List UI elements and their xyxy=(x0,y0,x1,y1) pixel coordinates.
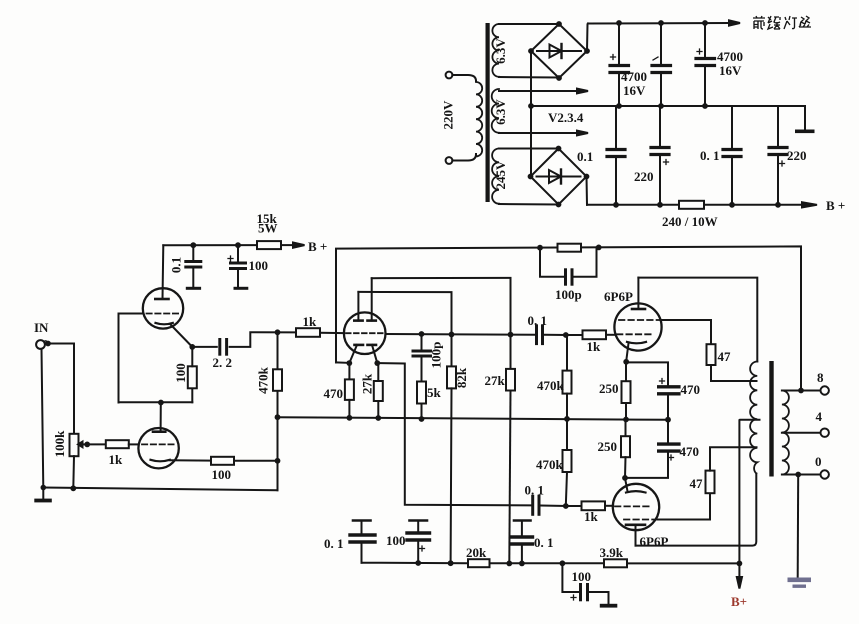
svg-text:0.1: 0.1 xyxy=(577,149,593,164)
capacitor 2.2 coupling xyxy=(218,340,221,355)
wire preamp B+ rail xyxy=(163,244,257,246)
svg-text:220V: 220V xyxy=(441,100,456,130)
node 27k2 at bottom rail xyxy=(506,561,512,567)
pentode V5 cathode xyxy=(626,491,646,492)
wire 0 tap to ground xyxy=(797,475,800,577)
OPT primary winding xyxy=(750,362,757,474)
resistor 20k (in rail) xyxy=(468,559,490,567)
capacitor 0.1 bottom #2 xyxy=(514,519,531,522)
node bridge1 right vertex xyxy=(584,48,590,54)
svg-text:2. 2: 2. 2 xyxy=(213,355,233,370)
node 0.1#2 at bottom rail xyxy=(519,561,525,567)
node bridge1 bottom vertex xyxy=(556,75,562,81)
wire V4 cathode down xyxy=(626,343,628,361)
svg-text:B +: B + xyxy=(826,198,845,213)
node 470 cap at mid rail xyxy=(665,417,671,423)
PSU labels xyxy=(441,38,846,229)
node cathode left xyxy=(346,360,352,366)
node 470k top xyxy=(275,329,281,335)
node fb RC right xyxy=(596,245,602,251)
pentode V4 screen grid (dashed) xyxy=(619,319,660,321)
wire V3 right plate up and over xyxy=(372,278,511,335)
capacitor 0.1 coupling lower xyxy=(531,496,534,514)
resistor 1k grid stopper V1 xyxy=(106,440,129,448)
node 100p xyxy=(419,331,425,337)
ground (speaker, blue-gray) xyxy=(788,578,812,588)
node 0 tap ground xyxy=(795,472,801,478)
resistor 470k lower bias (vertical) xyxy=(566,419,568,450)
capacitor 100p feedback loop xyxy=(540,248,563,277)
wire mid ground rail xyxy=(278,417,669,420)
triode V1 grid (dashed) xyxy=(142,443,175,445)
node filament rail cap3 xyxy=(702,20,708,26)
resistor feedback (in rail) xyxy=(558,244,582,252)
node rail 238 xyxy=(235,242,241,248)
svg-text:0. 1: 0. 1 xyxy=(700,148,720,163)
node input ground xyxy=(41,485,47,491)
triode V3 grid (dashed) xyxy=(346,332,384,334)
node 470k bottom / mid rail start xyxy=(275,414,281,420)
node 100 at bottom rail xyxy=(415,560,421,566)
capacitor 4700/16V #1 electrolytic xyxy=(618,23,620,64)
capacitor 0.1 psu #1 xyxy=(615,106,617,148)
svg-text:470k: 470k xyxy=(256,366,271,394)
bridge rectifier D2 diamond xyxy=(531,149,587,205)
node bridge1 top vertex xyxy=(556,21,562,27)
pentode V5 control grid (dashed) xyxy=(615,505,650,507)
svg-text:100: 100 xyxy=(249,258,269,273)
wire loop up to 100 SRPP resistor xyxy=(191,388,193,402)
node rail cap1 bottom xyxy=(616,103,622,109)
node pot bottom on ground rail xyxy=(70,485,76,491)
node 470 bottom xyxy=(347,415,353,421)
svg-text:470k: 470k xyxy=(536,457,564,472)
transformer T1 secondary 6.3V (top) winding xyxy=(492,24,499,77)
resistor 250 upper (vertical) xyxy=(625,362,627,381)
wire common ground rail xyxy=(531,105,805,107)
triode V1 plate xyxy=(153,430,165,433)
terminal 4 xyxy=(821,429,829,437)
svg-text:240 / 10W: 240 / 10W xyxy=(662,214,718,229)
svg-text:6.3V: 6.3V xyxy=(493,38,508,64)
wire 6.3V top winding to bridge1 top vertex xyxy=(499,23,559,25)
arrow heater feed top xyxy=(577,89,588,94)
node upper grid junction xyxy=(563,332,569,338)
svg-text:220: 220 xyxy=(787,148,807,163)
capacitor 0.1 preamp decoupling xyxy=(192,245,194,260)
wire 1k to V3 grid xyxy=(320,332,344,334)
triode V3 plate left xyxy=(354,319,362,322)
wire IN to pot top xyxy=(48,344,74,434)
svg-text:16V: 16V xyxy=(623,83,646,98)
resistor 250 lower (vertical) xyxy=(625,420,627,437)
pentode V4 control grid (dashed) xyxy=(617,333,651,335)
wire primary bottom lead xyxy=(452,154,476,161)
pentode V5 6P6P lower envelope xyxy=(613,484,659,530)
capacitor 100p (vertical) xyxy=(421,334,423,350)
svg-text:8: 8 xyxy=(817,370,824,385)
transformer T1 primary winding xyxy=(476,81,482,156)
wire V2 cathode diagonal to node xyxy=(171,325,193,347)
triode V2 cathode xyxy=(156,323,173,324)
svg-text:V2.3.4: V2.3.4 xyxy=(548,110,584,125)
node 27k2 top xyxy=(508,332,514,338)
svg-text:0. 1: 0. 1 xyxy=(525,483,545,498)
triode V3 envelope xyxy=(344,312,386,354)
terminal 220V bottom xyxy=(446,157,453,164)
svg-text:470: 470 xyxy=(681,382,701,397)
wire bridge1 DC+ up to filament rail xyxy=(587,24,588,52)
node B+ rail 732 xyxy=(729,202,735,208)
svg-text:245V: 245V xyxy=(493,160,508,190)
node bridge2 top vertex xyxy=(556,146,562,152)
node B+ rail 660 xyxy=(657,202,663,208)
capacitor 100 electrolytic to ground xyxy=(562,563,578,592)
node bridge2 left vertex xyxy=(528,174,534,180)
svg-text:82k: 82k xyxy=(454,367,469,388)
bridge rectifier D2 diode symbol xyxy=(537,176,581,178)
transformer T1 core xyxy=(486,23,490,202)
wire node to 2.2 cap xyxy=(192,346,217,348)
svg-text:100: 100 xyxy=(212,467,232,482)
capacitor 0.1 psu #2 xyxy=(731,106,733,148)
wire 1k to grid V1 xyxy=(129,443,139,445)
terminal 0 xyxy=(821,470,829,478)
svg-text:6.3V: 6.3V xyxy=(493,99,508,125)
capacitor 0.1 coupling upper xyxy=(535,326,538,344)
resistor 27k tail (vertical) xyxy=(377,363,379,381)
pentode V5 plate xyxy=(626,523,645,526)
svg-text:100p: 100p xyxy=(429,342,444,369)
node B+ rail 778 xyxy=(775,202,781,208)
triode V3 plate right xyxy=(368,319,376,322)
arrow filament output xyxy=(729,20,740,25)
pentode V4 plate xyxy=(632,308,645,311)
resistor 240/10W xyxy=(679,201,704,209)
resistor 470 cathode (vertical) xyxy=(348,363,350,379)
capacitor 220 psu electrolytic #2 xyxy=(777,106,779,146)
svg-text:4700: 4700 xyxy=(621,69,647,84)
svg-text:100: 100 xyxy=(572,569,592,584)
triode V2 upper SRPP envelope xyxy=(143,288,183,328)
node wiper xyxy=(84,442,90,448)
amplifier labels xyxy=(34,211,824,609)
node lower grid junction xyxy=(563,503,569,509)
node V1 plate to grid-loop xyxy=(158,400,164,406)
wire SRPP grid loop xyxy=(119,314,193,403)
terminal IN jack xyxy=(36,340,45,349)
triode V1 cathode xyxy=(151,460,170,462)
triode V3 cathode left xyxy=(355,344,364,347)
svg-text:250: 250 xyxy=(599,381,619,396)
wire feedback from 8 ohm tap xyxy=(336,246,801,390)
node IN xyxy=(45,341,51,347)
ground (bottom middle) xyxy=(600,604,618,608)
node filament rail cap2 xyxy=(658,20,664,26)
svg-text:100: 100 xyxy=(386,533,406,548)
resistor 82k (vertical) xyxy=(451,335,453,367)
OPT secondary winding xyxy=(782,391,789,475)
wire ground rail drop xyxy=(804,106,806,129)
resistor 1k coupling to phase splitter xyxy=(296,328,320,337)
wire V1 cathode to 100 xyxy=(170,459,211,461)
triode V3 cathode right xyxy=(368,344,377,347)
svg-text:0. 1: 0. 1 xyxy=(528,313,548,328)
potentiometer 100k xyxy=(70,434,79,456)
arrow B+ down xyxy=(738,563,740,578)
wire feedback into cathode xyxy=(336,361,349,364)
svg-text:100k: 100k xyxy=(52,430,67,458)
capacitor 220 psu electrolytic #1 xyxy=(659,106,661,146)
svg-text:4: 4 xyxy=(816,409,823,424)
node 8 tap feedback xyxy=(798,388,804,394)
resistor 470k upper bias (vertical) xyxy=(566,335,568,371)
resistor 27k #2 (vertical) xyxy=(510,335,512,369)
node SRPP output xyxy=(189,344,195,350)
wire filament rail xyxy=(588,22,729,25)
wire V3 left plate up and over xyxy=(358,292,451,335)
arrow heater feed bottom xyxy=(577,131,588,136)
capacitor 4700/16V #3 electrolytic xyxy=(704,23,706,57)
node rail cap2 bottom xyxy=(658,103,664,109)
wire wiper to 1k xyxy=(87,443,106,445)
svg-text:470: 470 xyxy=(324,386,344,401)
terminal 8 xyxy=(821,386,829,394)
node 5k bottom xyxy=(419,416,425,422)
node 82k top xyxy=(449,332,455,338)
svg-text:16V: 16V xyxy=(719,63,742,78)
wire V5 screen to 47 lower xyxy=(658,493,710,519)
node cathode right xyxy=(374,360,380,366)
wire 245V winding top to bridge2 top vertex xyxy=(499,148,559,150)
resistor 15k 5W xyxy=(257,241,281,249)
svg-text:5W: 5W xyxy=(258,221,278,236)
terminal 220V top xyxy=(446,72,453,79)
node bridge2 right vertex xyxy=(584,174,590,180)
svg-text:0.1: 0.1 xyxy=(169,257,184,273)
node cathode/ground riser xyxy=(275,458,281,464)
wire 6.3V mid winding top heater feed xyxy=(499,90,577,92)
svg-text:5k: 5k xyxy=(427,385,442,400)
node 27k bottom xyxy=(375,415,381,421)
triode V2 grid (dashed) xyxy=(147,313,181,315)
node 250 at mid rail xyxy=(623,417,629,423)
resistor 1k grid upper 6P6P xyxy=(566,334,583,336)
wire secondary 4 tap xyxy=(782,432,820,434)
node bridge1 left vertex xyxy=(528,48,534,54)
svg-text:3.9k: 3.9k xyxy=(600,545,624,560)
svg-text:1k: 1k xyxy=(584,509,599,524)
svg-text:47: 47 xyxy=(718,349,732,364)
resistor 100 SRPP (vertical) xyxy=(188,366,197,388)
svg-text:6P6P: 6P6P xyxy=(640,534,669,549)
resistor 47 screen lower xyxy=(706,471,715,494)
node 470k at mid rail xyxy=(564,416,570,422)
wire 245V winding bottom to bridge2 bottom vertex xyxy=(499,203,559,206)
svg-text:IN: IN xyxy=(34,320,49,335)
pentode V4 6P6P upper envelope xyxy=(614,303,661,350)
capacitor 100 preamp electrolytic xyxy=(237,245,239,261)
svg-text:20k: 20k xyxy=(466,545,487,560)
wire bottom ground rail xyxy=(362,562,740,565)
wire V4 plate to OPT top xyxy=(638,278,757,362)
wire right cathode to lower coupling drop xyxy=(377,363,531,505)
resistor 47 screen upper xyxy=(707,344,716,365)
capacitor 100 bottom electrolytic xyxy=(410,519,428,522)
triode V2 plate xyxy=(155,298,168,301)
resistor 5k (vertical) xyxy=(417,382,426,404)
node bridge2 bottom vertex xyxy=(556,202,562,208)
svg-text:0: 0 xyxy=(815,454,822,469)
transformer T1 secondary 6.3V (middle) winding xyxy=(492,89,499,133)
resistor 1k grid lower 6P6P xyxy=(566,505,582,507)
bridge rectifier D1 diode symbol xyxy=(537,50,581,52)
wire DC- from bridge1 left vertex down to common rail and bridge2 left vertex xyxy=(530,51,532,177)
transformer T1 secondary 245V winding xyxy=(492,149,499,204)
svg-text:47: 47 xyxy=(690,476,704,491)
svg-text:6P6P: 6P6P xyxy=(604,289,633,304)
node fb RC left xyxy=(537,245,543,251)
svg-text:B +: B + xyxy=(308,239,327,254)
wire B+ feed riser to OPT center tap xyxy=(739,420,759,564)
svg-text:1k: 1k xyxy=(109,452,124,467)
wire 2.2 to coupling node xyxy=(230,332,296,347)
node B+ feed junction xyxy=(737,561,743,567)
svg-text:470: 470 xyxy=(680,444,700,459)
wire IN ground drop xyxy=(42,349,44,488)
svg-text:B+: B+ xyxy=(731,594,747,609)
wire V3 output row xyxy=(386,333,535,336)
node rail cap3 bottom xyxy=(702,103,708,109)
wire B+ raw rail xyxy=(587,204,801,206)
potentiometer wiper arrow xyxy=(82,443,87,445)
wire V4 screen to 47 xyxy=(661,320,712,344)
wire ground stub xyxy=(42,488,44,500)
node rail 193 xyxy=(190,242,196,248)
wire 6.3V top winding bottom to bridge1 bottom vertex xyxy=(499,76,559,79)
node B+ rail 616 xyxy=(613,202,619,208)
wire secondary 0 tap xyxy=(782,474,820,476)
OPT core xyxy=(769,361,773,477)
wire primary top lead xyxy=(452,75,476,81)
resistor 100 cathode V1 xyxy=(211,457,234,465)
svg-text:1k: 1k xyxy=(587,339,602,354)
wire bridge2 DC+ down to B+ rail xyxy=(586,177,589,205)
ground (input) xyxy=(34,499,52,503)
arrow to B+ (preamp) xyxy=(293,243,305,248)
svg-text:100: 100 xyxy=(173,363,188,383)
capacitor C filament #2 xyxy=(660,23,662,64)
svg-text:27k: 27k xyxy=(360,373,375,394)
label 前级灯丝 (hand drawn strokes) xyxy=(753,16,811,29)
wire secondary 8 tap xyxy=(782,390,820,392)
svg-text:100p: 100p xyxy=(555,287,582,302)
capacitor 470 bypass lower electrolytic xyxy=(667,420,669,443)
svg-text:4700: 4700 xyxy=(717,49,743,64)
wire riser x=277.5 xyxy=(277,332,279,490)
ground (power supply) xyxy=(795,130,815,134)
node 100 elec branch xyxy=(560,560,566,566)
svg-text:0. 1: 0. 1 xyxy=(534,535,554,550)
arrow B+ output xyxy=(802,202,817,207)
capacitor 0.1 bottom #1 xyxy=(353,519,371,522)
node V4 cathode xyxy=(623,359,629,365)
svg-text:250: 250 xyxy=(598,439,618,454)
svg-text:0. 1: 0. 1 xyxy=(324,536,344,551)
bridge rectifier D1 diamond xyxy=(531,24,587,78)
node filament rail cap1 xyxy=(616,20,622,26)
svg-text:470k: 470k xyxy=(537,378,565,393)
node V5 cathode xyxy=(622,475,628,481)
resistor 470k grid leak (vertical) xyxy=(273,369,282,391)
wire 6.3V mid winding bottom heater feed xyxy=(499,132,577,134)
svg-text:1k: 1k xyxy=(303,314,318,329)
svg-text:220: 220 xyxy=(634,169,654,184)
wire V5 plate to OPT bottom xyxy=(636,474,757,546)
wire 15k to B+ arrow xyxy=(281,244,293,246)
pentode V5 screen grid (dashed) xyxy=(624,519,658,521)
node DC- on common rail xyxy=(528,103,534,109)
resistor 3.9k (in rail) xyxy=(604,559,627,567)
wire V5 cathode up xyxy=(625,478,628,491)
wire 100 to node xyxy=(234,460,278,462)
capacitor 470 bypass upper electrolytic xyxy=(626,362,668,385)
svg-text:27k: 27k xyxy=(485,373,506,388)
pentode V4 cathode xyxy=(627,342,646,343)
node 82k line at bottom rail xyxy=(448,560,454,566)
triode V1 lower (input) envelope xyxy=(138,428,178,468)
wire ground rail bottom-left xyxy=(43,488,277,491)
